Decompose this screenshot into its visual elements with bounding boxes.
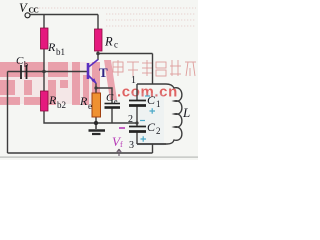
resistor Rb2 xyxy=(41,91,49,111)
letter P xyxy=(48,62,68,77)
letter E2 xyxy=(24,62,44,77)
capacitor C1 xyxy=(129,101,146,106)
svg-text:C: C xyxy=(16,55,24,67)
svg-text:R: R xyxy=(79,94,88,108)
wire bottom feedback rail xyxy=(8,152,153,154)
svg-text:b: b xyxy=(24,60,28,69)
junction dot collector feed xyxy=(96,52,100,56)
wire node3 rail xyxy=(137,143,166,145)
capacitor C2 xyxy=(129,127,146,132)
svg-text:b2: b2 xyxy=(57,100,66,110)
junction dot emitter branch xyxy=(94,86,97,89)
svg-text:CC: CC xyxy=(29,6,39,15)
svg-text:L: L xyxy=(182,105,190,120)
svg-text:C: C xyxy=(147,93,156,107)
wire Rc bottom / collector xyxy=(97,52,99,61)
svg-text:e: e xyxy=(114,97,118,106)
wire base rail xyxy=(8,71,88,73)
polarity marks C2 xyxy=(140,121,146,142)
faint stipple watermark rows top xyxy=(36,8,196,26)
wire Cb left to bottom loop xyxy=(7,72,9,154)
wire Ce bottom xyxy=(111,108,113,123)
capacitor Ce xyxy=(105,104,121,108)
wire tank top xyxy=(137,83,166,85)
svg-text:2: 2 xyxy=(128,114,133,125)
wire collector feed horizontal xyxy=(98,53,153,55)
resistor Rb1 xyxy=(41,28,49,49)
junction dot node 2 xyxy=(135,121,138,124)
pink EEPW watermark band xyxy=(0,62,100,104)
wire Re bottom xyxy=(95,117,97,123)
letter W xyxy=(72,62,80,105)
wire Rb1 bottom to base node xyxy=(43,49,45,72)
wire C2 bottom to node3 xyxy=(136,132,138,144)
svg-text:3: 3 xyxy=(129,140,134,151)
bottom page rule xyxy=(0,157,198,158)
wire Rb2 bottom to ground rail xyxy=(44,111,96,123)
light blue tint over tank circuit xyxy=(130,93,164,146)
polarity marks C1 xyxy=(145,96,155,114)
wire Rc top xyxy=(97,15,99,30)
Vcc terminal circle xyxy=(25,13,30,18)
wire C1 bottom to C2 top xyxy=(136,107,138,127)
svg-text:b1: b1 xyxy=(56,47,65,57)
svg-text:c: c xyxy=(114,40,118,50)
resistor Re xyxy=(92,93,101,117)
svg-text:f: f xyxy=(120,140,123,149)
junction dot base node xyxy=(42,70,46,74)
svg-text:R: R xyxy=(104,35,113,49)
red CJK watermark row 电子产品世界 xyxy=(113,60,196,76)
capacitor Cb xyxy=(21,65,27,79)
wire top rail Vcc to Rc xyxy=(30,14,98,16)
svg-text:C: C xyxy=(147,120,156,134)
wire Rb2 vertical top xyxy=(43,72,45,92)
svg-text:1: 1 xyxy=(131,75,136,86)
junction dot ground node xyxy=(94,121,98,125)
wire ground rail to node 2 xyxy=(96,122,137,124)
svg-text:T: T xyxy=(99,65,108,80)
wire emitter to Ce branch xyxy=(96,88,112,103)
ground symbol xyxy=(89,123,106,134)
inductor L coil xyxy=(137,84,182,144)
svg-text:R: R xyxy=(48,93,57,107)
svg-text:1: 1 xyxy=(156,99,161,109)
svg-text:e: e xyxy=(88,101,92,111)
svg-text:R: R xyxy=(47,40,56,54)
transistor T xyxy=(88,60,98,84)
slash xyxy=(104,60,117,100)
wire Rb1 top xyxy=(43,15,45,29)
wire node1 to C1 xyxy=(136,84,138,100)
wire tank feed vertical xyxy=(152,54,154,85)
Vf annotation xyxy=(112,128,125,156)
wire emitter down xyxy=(95,83,97,88)
transistor emitter arrowhead xyxy=(92,78,97,84)
wire step to node3 xyxy=(152,144,154,153)
resistor Rc xyxy=(95,29,103,51)
svg-text:C: C xyxy=(106,92,114,104)
svg-text:2: 2 xyxy=(156,126,161,136)
letter E1 xyxy=(0,62,20,77)
wire emitter to Re xyxy=(95,88,97,93)
